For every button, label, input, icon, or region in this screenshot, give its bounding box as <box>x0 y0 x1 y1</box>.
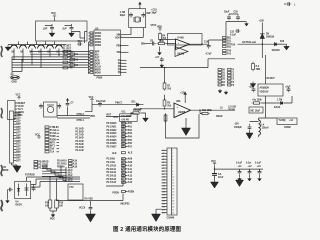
svg-text:B6T: B6T <box>16 130 21 132</box>
wire mid-right rail <box>208 59 235 68</box>
scan artifact smudge 4 <box>1 200 3 211</box>
pin P0.0/AD0 MCU <box>107 122 133 125</box>
svg-text:A15: A15 <box>128 181 133 184</box>
svg-text:P1.0(A): P1.0(A) <box>133 109 141 112</box>
wire L4 connections <box>250 118 259 137</box>
svg-text:A15: A15 <box>73 163 78 166</box>
svg-text:B0L: B0L <box>227 37 232 39</box>
capacitor C6 right of Y1 <box>57 104 61 109</box>
resistor R10 pullup <box>131 109 141 114</box>
svg-text:19: 19 <box>172 203 174 205</box>
junction dot op-amp output <box>201 44 202 45</box>
capacitor C16 near row <box>77 41 82 46</box>
pin J1-16 <box>14 155 22 157</box>
wire +15V rail <box>261 23 263 45</box>
svg-text:VDD2: VDD2 <box>95 42 102 44</box>
svg-text:B0T: B0T <box>16 113 21 115</box>
transistor Q5 <box>47 45 54 56</box>
connector J1 body <box>10 111 14 163</box>
net label P3.2/INT <box>34 167 48 170</box>
wire feedback box bottom right <box>106 184 123 187</box>
crystal circuit box <box>129 9 146 28</box>
svg-text:VDD12V: VDD12V <box>260 92 269 94</box>
net labels right of transistor row <box>63 46 72 56</box>
svg-text:P00: P00 <box>128 123 133 125</box>
pin P2-5 <box>162 162 174 164</box>
svg-text:P3.4AD: P3.4AD <box>76 140 84 143</box>
svg-text:a8: a8 <box>162 171 164 173</box>
wire bus6 <box>12 64 89 66</box>
svg-text:A14: A14 <box>73 159 78 162</box>
svg-text:P19: P19 <box>59 203 64 205</box>
svg-text:B8T: B8T <box>16 135 21 137</box>
pin J1-8 <box>14 133 22 135</box>
labels L1 L2 L3 <box>238 166 262 168</box>
net label INT1 <box>45 145 59 148</box>
label L2 block <box>228 107 237 112</box>
ground transistor row <box>5 45 10 51</box>
wire bundle to MCU left <box>56 166 66 182</box>
pin J1-17 <box>14 158 22 160</box>
svg-text:VCC: VCC <box>51 13 56 15</box>
svg-text:TA0: TA0 <box>227 49 232 52</box>
svg-text:TA0: TA0 <box>231 44 236 47</box>
pin box P9L5 <box>218 81 226 84</box>
svg-text:P0.3/AD3: P0.3/AD3 <box>107 132 118 135</box>
svg-text:P0.6/AD6: P0.6/AD6 <box>107 142 118 145</box>
pin box P8-3 <box>223 43 232 46</box>
svg-text:a6: a6 <box>162 165 164 167</box>
capacitor C2 left of optocoupler <box>8 188 13 192</box>
svg-text:FL NET: FL NET <box>63 46 72 48</box>
node N3 <box>65 174 73 177</box>
pin XER U3 <box>89 60 100 63</box>
net label TXD0 <box>45 135 59 138</box>
VCC above reset IC <box>16 95 21 100</box>
pin J1-13 <box>14 147 22 149</box>
pin DOR U3 <box>89 63 101 66</box>
svg-text:P0.1/AD1: P0.1/AD1 <box>107 125 118 128</box>
svg-text:GND: GND <box>12 82 17 84</box>
wire bus to IC vertical <box>88 42 90 74</box>
junction dot U8 input <box>164 108 165 109</box>
resistor R4 (to op-amp) <box>159 32 167 42</box>
pin P0.6/AD6 MCU <box>107 142 133 145</box>
net label PSEN0b <box>57 166 78 169</box>
capacitor C24 +2uF <box>285 87 291 93</box>
svg-text:DIN: DIN <box>141 44 145 46</box>
wire DCOUT vertical <box>265 55 267 84</box>
svg-text:11: 11 <box>172 180 174 182</box>
svg-text:A16: A16 <box>73 166 78 169</box>
ground arrow below J1 <box>12 163 22 173</box>
svg-text:FT2: FT2 <box>70 187 75 189</box>
svg-text:B4T: B4T <box>16 151 21 154</box>
LED inside optocoupler <box>17 184 20 197</box>
ground after D10 <box>278 44 289 50</box>
svg-text:VCC0: VCC0 <box>18 106 25 108</box>
svg-text:B1T: B1T <box>16 116 21 118</box>
capacitor C9 +10uF <box>96 101 106 107</box>
wire from box to IC U3 <box>72 32 88 44</box>
svg-text:P1.6A: P1.6A <box>50 132 57 135</box>
pin VDD0 U3 <box>89 35 102 38</box>
capacitor C17 with ground <box>155 57 164 68</box>
svg-text:VCC: VCC <box>16 95 21 97</box>
labels CTRL nets <box>77 114 85 122</box>
node N2 <box>65 172 73 175</box>
pin J1-1 <box>14 113 22 115</box>
pin Q5 U3 right <box>118 72 127 74</box>
svg-text:16: 16 <box>172 195 174 197</box>
wire bus5 <box>12 61 89 63</box>
svg-text:ALE: ALE <box>112 152 117 155</box>
wire R13 to D12 <box>261 96 292 103</box>
svg-text:P18: P18 <box>45 203 50 205</box>
op-amp U8 LM358 <box>174 100 191 118</box>
svg-text:BCM: BCM <box>3 170 8 172</box>
svg-text:2: 2 <box>172 153 173 155</box>
svg-text:P2.5/A13: P2.5/A13 <box>107 174 117 177</box>
pin P2.3/A11 MCU <box>107 168 133 171</box>
diode D11 1N4148 <box>132 102 143 111</box>
ground arrow below connector <box>152 209 162 221</box>
svg-text:B5T: B5T <box>16 155 21 157</box>
svg-text:R06: R06 <box>160 41 165 43</box>
svg-text:U8A: U8A <box>176 100 181 103</box>
resistor R6 op-amp input <box>157 41 167 45</box>
svg-text:BPF: BPF <box>95 51 100 53</box>
pin Q2 U3 right <box>118 63 127 65</box>
svg-text:a9: a9 <box>162 174 164 176</box>
svg-text:P0.2/AD2: P0.2/AD2 <box>107 129 118 132</box>
svg-text:5: 5 <box>172 162 173 164</box>
svg-text:B3L: B3L <box>227 46 232 48</box>
wire to COM2 <box>259 96 278 118</box>
svg-text:C10: C10 <box>204 42 209 44</box>
net label CTRL0 <box>45 126 59 129</box>
VCC symbol top-left box <box>51 13 56 21</box>
svg-text:A12: A12 <box>128 171 133 174</box>
pin PSEN MCU <box>113 190 135 194</box>
svg-text:+C7: +C7 <box>155 57 160 59</box>
svg-text:B3T: B3T <box>16 121 21 123</box>
wire transistor row rail <box>8 44 66 46</box>
pin BPF U3 <box>89 51 100 54</box>
net label T0A <box>45 148 59 151</box>
pin P0.1/AD1 MCU <box>107 125 133 128</box>
pin box P9L6 <box>218 84 226 87</box>
node N4 <box>65 177 73 180</box>
pin MOSI U3 <box>89 72 102 75</box>
svg-text:VT0C: VT0C <box>151 25 157 27</box>
svg-text:A11: A11 <box>128 168 133 171</box>
svg-text:P04: P04 <box>128 136 133 139</box>
svg-text:P2.6/A14: P2.6/A14 <box>57 159 67 162</box>
wire bus2 <box>30 53 89 55</box>
svg-text:B5T: B5T <box>16 127 21 129</box>
scan artifact smudge 2 <box>1 108 3 118</box>
svg-text:P1.6AD: P1.6AD <box>76 131 84 134</box>
pin Q4 U3 right <box>118 68 127 71</box>
pin P2-10 <box>162 177 175 179</box>
svg-text:A8.0: A8.0 <box>68 169 74 172</box>
pin VDD1 U3 <box>89 38 102 41</box>
VCC mid label column <box>35 135 41 140</box>
pin XOUT U3 right <box>115 37 129 39</box>
svg-text:B1T: B1T <box>16 144 21 146</box>
svg-text:B3T: B3T <box>16 149 21 151</box>
pin J1-4 <box>14 121 22 123</box>
svg-text:74HC?: 74HC? <box>115 102 123 105</box>
svg-text:A6 P10/Load: A6 P10/Load <box>242 41 256 44</box>
ground CB1 <box>238 177 242 181</box>
svg-text:39pF: 39pF <box>152 13 158 15</box>
resistor R9 100 <box>55 179 64 208</box>
svg-text:INT1: INT1 <box>50 146 56 148</box>
pin P2-14 <box>162 189 175 191</box>
svg-text:+5V 4R: +5V 4R <box>121 118 129 121</box>
wire op-amp U8 output rail <box>191 110 236 113</box>
svg-text:B7T: B7T <box>16 161 21 163</box>
svg-text:VDD: VDD <box>157 27 162 29</box>
svg-text:C16: C16 <box>78 41 83 43</box>
svg-text:a2: a2 <box>162 153 164 155</box>
svg-text:1.7M: 1.7M <box>277 100 282 102</box>
pin J1-15 <box>14 151 22 154</box>
svg-text:VDD: VDD <box>90 116 95 118</box>
svg-text:L2 UH2: L2 UH2 <box>228 107 237 109</box>
resistor R3 in loop <box>164 113 167 123</box>
svg-text:a22: a22 <box>162 212 165 214</box>
wire VCC rail bottom <box>215 168 264 170</box>
wire op-amp U8 inputs <box>140 95 174 109</box>
svg-text:VCC: VCC <box>89 97 94 99</box>
svg-text:1500pF: 1500pF <box>234 127 243 129</box>
svg-text:B2T: B2T <box>16 147 21 149</box>
junction dots opto bus <box>49 176 50 177</box>
pin RST U3 <box>89 57 100 60</box>
svg-text:POC: POC <box>50 219 55 221</box>
wire bus left drop <box>12 57 22 72</box>
diode D12 <box>274 100 284 110</box>
svg-text:23uF: 23uF <box>224 12 230 14</box>
svg-text:-15V: -15V <box>234 124 239 126</box>
pin P0.3/AD3 MCU <box>107 132 133 135</box>
pin P2-16 <box>162 195 175 197</box>
pin J1-12 <box>14 144 22 146</box>
pin J1-10 <box>14 138 22 140</box>
pin P2-21 <box>162 209 175 211</box>
label VTOC <box>151 25 157 27</box>
op IC U3 body <box>94 30 121 76</box>
svg-text:0.1uF: 0.1uF <box>255 163 262 165</box>
svg-text:P02: P02 <box>128 130 133 132</box>
capacitor C25 <box>248 124 252 130</box>
svg-text:a1: a1 <box>162 150 164 152</box>
pin P2.7/A15 MCU <box>107 181 133 184</box>
svg-text:B2T: B2T <box>16 119 21 121</box>
label A6 P10/Load <box>231 41 256 47</box>
svg-text:a3: a3 <box>162 156 164 158</box>
svg-text:P17/RXD: P17/RXD <box>25 175 35 177</box>
svg-text:3: 3 <box>172 156 173 158</box>
svg-text:VDDA: VDDA <box>95 32 102 35</box>
pin TXD U3 right <box>116 52 128 54</box>
svg-text:B0T: B0T <box>16 141 21 143</box>
svg-text:+0y 150k: +0y 150k <box>252 100 262 102</box>
svg-text:a10: a10 <box>162 177 165 179</box>
pin XIN U3 right <box>116 35 127 37</box>
scan artifact smudge 1 <box>1 46 2 57</box>
svg-text:P2.2/A10: P2.2/A10 <box>107 164 117 167</box>
pin P2-11 <box>162 180 175 182</box>
svg-text:7: 7 <box>172 168 173 170</box>
svg-text:DOR: DOR <box>95 63 100 65</box>
pin P2.1/A9 MCU <box>107 161 133 164</box>
svg-text:T0A: T0A <box>50 148 55 151</box>
svg-text:TL71: TL71 <box>18 109 24 111</box>
svg-text:P2.4/A12: P2.4/A12 <box>107 171 117 174</box>
pin box P8-2 <box>223 40 232 43</box>
svg-text:A10: A10 <box>128 164 133 167</box>
svg-text:P4.0AD: P4.0AD <box>76 146 84 149</box>
svg-text:VCC: VCC <box>35 135 40 137</box>
label U5 BCM <box>3 167 8 172</box>
svg-text:P06: P06 <box>69 68 74 70</box>
label -15V 1500pF <box>234 124 243 130</box>
svg-text:U3: U3 <box>95 26 99 30</box>
capacitor CB3 <box>258 169 262 177</box>
resistor R1 7k5 <box>163 68 172 91</box>
pin box P9L4 <box>218 78 226 81</box>
wire cap pair rails <box>229 14 247 22</box>
svg-text:PSEN: PSEN <box>128 191 135 193</box>
connector P2 body CON40 <box>167 148 177 215</box>
pin P2-20 <box>162 206 175 208</box>
svg-text:a15: a15 <box>162 192 165 194</box>
net label P2.6/A14b <box>57 159 78 162</box>
svg-text:C9+10uF: C9+10uF <box>96 101 106 103</box>
svg-text:VCC: VCC <box>211 161 216 163</box>
VCC above CA cap <box>211 161 216 169</box>
svg-text:a19: a19 <box>162 203 165 205</box>
svg-text:TL/BQ: TL/BQ <box>279 120 286 122</box>
labels reset IC pins <box>18 103 26 117</box>
wires optocoupler to bus <box>27 177 81 187</box>
pin EA VSS MCU <box>85 198 94 201</box>
phototransistor inside optocoupler <box>25 184 29 197</box>
pin J1-6 <box>14 127 22 129</box>
wire EA VSS rail <box>56 194 123 206</box>
svg-text:CON40: CON40 <box>167 217 175 220</box>
junction dot bus <box>21 59 22 60</box>
svg-text:(UF: (UF <box>43 27 48 31</box>
junction dot U8 output <box>199 110 200 111</box>
pin P2-1 <box>162 150 174 152</box>
VDD symbol op-amp U7 <box>157 27 162 31</box>
svg-text:CA: CA <box>218 173 222 176</box>
svg-text:P2.0/A8: P2.0/A8 <box>107 158 116 161</box>
svg-text:B4T: B4T <box>16 123 21 126</box>
optocoupler U4 box <box>15 181 31 198</box>
pin box P9R5 <box>228 81 235 84</box>
capacitor C20 <box>236 15 240 20</box>
capacitor C5 left of Y1 <box>39 104 43 109</box>
svg-text:KA0A: KA0A <box>274 106 281 109</box>
net label INT0 <box>45 141 59 144</box>
label C18 39pF top <box>151 10 158 15</box>
pin box P9L1 <box>218 69 226 72</box>
ground below C2 <box>6 190 10 204</box>
svg-text:a5: a5 <box>162 162 164 164</box>
wire power row rail <box>85 105 144 112</box>
svg-text:10: 10 <box>172 177 174 179</box>
labels 0.1uF trio <box>236 163 262 165</box>
box U14 small <box>249 107 263 113</box>
pin J1-7 <box>14 130 22 132</box>
svg-text:DCOUT: DCOUT <box>267 78 276 80</box>
svg-text:D11: D11 <box>132 102 137 104</box>
net label P3.0/RXD <box>34 160 49 163</box>
svg-text:P03: P03 <box>128 133 133 135</box>
svg-text:VDD1: VDD1 <box>95 39 102 41</box>
zener diode D9 1N5819 <box>260 34 275 39</box>
wire DIN left entry <box>141 44 151 46</box>
svg-text:RST: RST <box>114 117 119 119</box>
svg-text:R11 150k: R11 150k <box>202 110 213 112</box>
svg-text:T1A: T1A <box>50 151 55 154</box>
capacitor C11 EA <box>79 206 92 211</box>
svg-text:RST: RST <box>95 57 100 59</box>
pin VDDA U3 <box>89 32 102 35</box>
inductor L4 120uH <box>259 120 269 135</box>
svg-text:AD(8)OH: AD(8)OH <box>260 87 270 90</box>
svg-text:MOSI: MOSI <box>95 72 101 74</box>
pin J1-3 <box>14 119 22 121</box>
junction dot mid rail <box>164 67 165 68</box>
capacitor C7 with arrow <box>66 98 75 107</box>
wire bus7 <box>12 67 89 69</box>
pin J1-14 <box>14 149 22 151</box>
svg-text:A13: A13 <box>128 174 133 177</box>
ground CB2 <box>248 177 252 181</box>
pin box P9R1 <box>228 69 235 72</box>
svg-text:a11: a11 <box>162 180 165 182</box>
pin J1-18 <box>14 161 22 163</box>
svg-text:P3.5AD: P3.5AD <box>76 143 84 146</box>
pin Q1 U3 right <box>118 60 127 62</box>
pin SCLK U3 <box>89 66 102 69</box>
svg-text:EA VSS: EA VSS <box>85 198 94 201</box>
svg-text:P2.7/A15: P2.7/A15 <box>107 181 117 184</box>
ground arrow below C11 <box>86 211 96 222</box>
capacitor CB2 <box>248 169 252 177</box>
svg-text:P01: P01 <box>128 126 133 128</box>
svg-text:+2uF: +2uF <box>285 87 291 89</box>
capacitor C13 (crystal right) <box>141 13 145 18</box>
scan artifact smudge 3 <box>1 165 3 176</box>
pin P2-17 <box>162 197 175 199</box>
ground arrow under R12 <box>250 82 255 88</box>
svg-text:21: 21 <box>172 209 174 211</box>
svg-text:39P: 39P <box>146 13 151 15</box>
pin P2-9 <box>162 174 174 176</box>
svg-text:(UF: (UF <box>63 27 68 31</box>
net label P1.6A <box>45 132 59 135</box>
resistor R11 150k <box>200 110 212 115</box>
wire op-amp output <box>190 43 209 45</box>
